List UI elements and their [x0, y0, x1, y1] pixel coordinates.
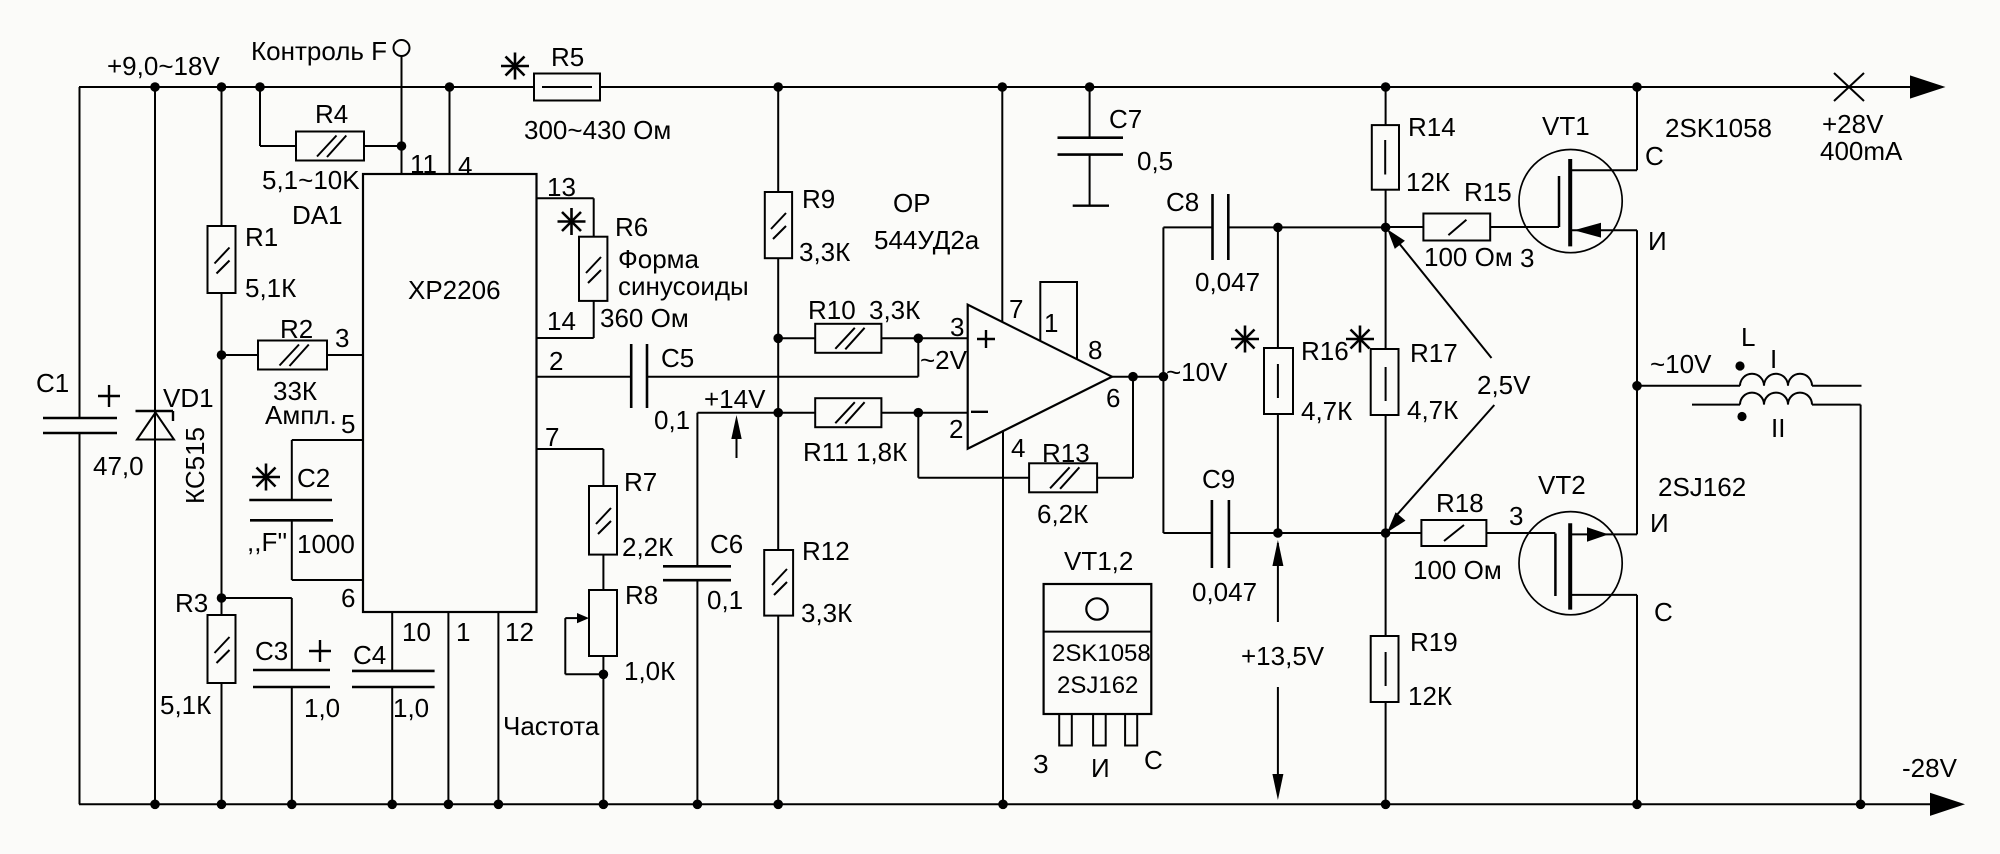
svg-text:C1: C1	[36, 368, 69, 398]
resistor R5 300~430 Ом	[524, 42, 671, 145]
svg-text:12К: 12К	[1406, 167, 1450, 197]
svg-text:С: С	[1654, 597, 1673, 627]
resistor R6 360 Ом with pins 13,14	[537, 172, 749, 338]
svg-text:И: И	[1648, 226, 1667, 256]
svg-text:2SK1058: 2SK1058	[1052, 640, 1151, 667]
node 2,5V label with pointer arrows	[1387, 229, 1531, 532]
wire R1 branch	[221, 87, 223, 804]
svg-text:Форма: Форма	[618, 244, 700, 274]
svg-text:I: I	[1770, 344, 1777, 374]
wire pin 4 branch	[449, 87, 451, 174]
inductor L transformer primary I	[1637, 322, 1862, 386]
wire bottom -28V bus	[79, 803, 1934, 805]
svg-text:100 Ом: 100 Ом	[1413, 555, 1502, 585]
wire VD1 branch	[154, 87, 156, 804]
resistor R12 3,3K	[764, 536, 852, 628]
node X break mark on top bus	[1834, 73, 1864, 101]
svg-text:3: 3	[950, 312, 964, 342]
svg-text:C3: C3	[255, 636, 288, 666]
svg-text:II: II	[1771, 413, 1785, 443]
resistor R13 6,2K feedback	[918, 413, 1097, 529]
svg-text:7: 7	[545, 422, 559, 452]
capacitor C4 1,0 with pin 10	[352, 612, 435, 804]
component asterisk near C2	[252, 464, 280, 491]
svg-text:VT1,2: VT1,2	[1064, 546, 1133, 576]
svg-text:10: 10	[402, 617, 431, 647]
svg-text:И: И	[1091, 753, 1110, 783]
resistor R2 33K	[222, 314, 364, 430]
svg-text:2,5V: 2,5V	[1477, 370, 1531, 400]
node Контроль F terminal	[251, 36, 410, 174]
node junction dots top bus	[150, 82, 1642, 92]
svg-text:R11 1,8К: R11 1,8К	[803, 437, 907, 467]
svg-text:1: 1	[456, 617, 470, 647]
svg-text:2: 2	[949, 414, 963, 444]
svg-text:R8: R8	[625, 580, 658, 610]
svg-text:R10: R10	[808, 295, 856, 325]
wire output bracket to C8/C9	[1162, 227, 1164, 533]
svg-text:2SK1058: 2SK1058	[1665, 113, 1772, 143]
svg-text:3: 3	[1520, 243, 1534, 273]
node ~10V output node label	[1650, 349, 1712, 379]
svg-text:R1: R1	[245, 222, 278, 252]
svg-text:5,1К: 5,1К	[160, 690, 211, 720]
svg-text:2: 2	[549, 346, 563, 376]
svg-text:R7: R7	[624, 467, 657, 497]
wire R14-R17-R19 branch	[1385, 87, 1387, 804]
svg-text:VT1: VT1	[1542, 111, 1590, 141]
svg-text:12: 12	[505, 617, 534, 647]
svg-text:47,0: 47,0	[93, 451, 144, 481]
svg-text:6: 6	[341, 583, 355, 613]
node bottom-bus output arrow	[1930, 793, 1965, 816]
svg-text:+28V: +28V	[1822, 109, 1884, 139]
svg-text:1000: 1000	[297, 529, 355, 559]
resistor R3 5,1K	[160, 588, 236, 720]
svg-text:1,0: 1,0	[393, 693, 429, 723]
svg-text:~10V: ~10V	[1650, 349, 1712, 379]
svg-text:КС515: КС515	[180, 427, 210, 504]
wire R9-R12 branch	[777, 87, 779, 804]
svg-text:-28V: -28V	[1902, 753, 1958, 783]
resistor R1 5,1K	[208, 222, 297, 303]
svg-text:Ампл.: Ампл.	[265, 400, 337, 430]
component asterisk near R16	[1231, 326, 1259, 353]
svg-text:R17: R17	[1410, 338, 1458, 368]
svg-text:3: 3	[1509, 501, 1523, 531]
resistor R16 4,7K	[1264, 227, 1352, 533]
transistor VT1,2 package drawing 2SK1058/2SJ162	[1033, 546, 1163, 783]
svg-text:XP2206: XP2206	[408, 275, 501, 305]
svg-text:R9: R9	[802, 184, 835, 214]
resistor R15 100 Ом	[1386, 177, 1559, 273]
transistor Q2 VT2 2SJ162	[1519, 386, 1746, 805]
svg-text:C2: C2	[297, 463, 330, 493]
svg-text:3,3К: 3,3К	[801, 598, 852, 628]
diode VD1 zener КС515	[136, 383, 214, 504]
svg-text:1,0: 1,0	[304, 693, 340, 723]
node junction dots bottom bus	[150, 800, 1865, 810]
svg-text:C4: C4	[353, 640, 386, 670]
svg-text:~2V: ~2V	[920, 345, 968, 375]
wire op-amp pin 7 branch	[1002, 87, 1023, 324]
op-amp OP 544УД2а label	[874, 188, 980, 255]
svg-text:R13: R13	[1042, 438, 1090, 468]
svg-text:1,0К: 1,0К	[624, 656, 675, 686]
svg-text:300~430 Ом: 300~430 Ом	[524, 115, 671, 145]
svg-text:+9,0~18V: +9,0~18V	[107, 51, 220, 81]
svg-text:R19: R19	[1410, 627, 1458, 657]
wire left vertical branch with C1	[79, 87, 81, 804]
svg-text:4: 4	[1011, 433, 1025, 463]
svg-text:2SJ162: 2SJ162	[1658, 472, 1746, 502]
svg-text:ОР: ОР	[893, 188, 931, 218]
svg-text:C7: C7	[1109, 104, 1142, 134]
svg-text:VT2: VT2	[1538, 470, 1586, 500]
component asterisk near R17	[1346, 326, 1374, 353]
svg-text:0,5: 0,5	[1137, 146, 1173, 176]
capacitor C2 1000 with pins 5,6	[247, 409, 363, 613]
svg-text:544УД2а: 544УД2а	[874, 225, 980, 255]
svg-text:C8: C8	[1166, 187, 1199, 217]
resistor R11 1,8K	[803, 398, 968, 467]
node -28V label	[1902, 753, 1958, 783]
wire pin 1 branch	[448, 612, 470, 804]
svg-text:5,1~10K: 5,1~10K	[262, 165, 360, 195]
svg-text:8: 8	[1088, 335, 1102, 365]
svg-text:6: 6	[1106, 383, 1120, 413]
svg-text:С: С	[1144, 745, 1163, 775]
svg-text:R12: R12	[802, 536, 850, 566]
node op-amp pins 1-8 bracket	[1040, 282, 1102, 365]
svg-text:R15: R15	[1464, 177, 1512, 207]
node Частота label	[503, 711, 600, 741]
svg-text:З: З	[1033, 749, 1049, 779]
node top-bus output arrow	[1910, 75, 1946, 98]
node +9,0~18V label	[107, 51, 220, 81]
capacitor C7 0,5	[1058, 87, 1174, 206]
node ~10V output label	[1166, 357, 1228, 387]
resistor R18 100 Ом	[1386, 488, 1556, 585]
svg-text:5: 5	[341, 409, 355, 439]
resistor R19 12K	[1371, 627, 1458, 711]
potentiometer R8 1,0K	[565, 555, 675, 805]
svg-text:R16: R16	[1301, 336, 1349, 366]
svg-text:R4: R4	[315, 99, 348, 129]
op-amp DA1 label	[292, 200, 343, 230]
svg-text:12К: 12К	[1408, 681, 1452, 711]
svg-text:R3: R3	[175, 588, 208, 618]
svg-text:L: L	[1741, 322, 1755, 352]
resistor R9 3,3K	[765, 184, 850, 267]
svg-text:+14V: +14V	[704, 384, 766, 414]
svg-text:Частота: Частота	[503, 711, 600, 741]
svg-text:14: 14	[547, 306, 576, 336]
svg-text:4,7К: 4,7К	[1407, 395, 1458, 425]
svg-text:5,1К: 5,1К	[245, 273, 296, 303]
svg-text:синусоиды: синусоиды	[618, 271, 749, 301]
svg-text:3,3К: 3,3К	[869, 295, 920, 325]
svg-text:400mA: 400mA	[1820, 136, 1903, 166]
transistor Q1 VT1 2SK1058	[1519, 87, 1772, 386]
svg-text:C6: C6	[710, 529, 743, 559]
resistor R17 4,7K	[1371, 338, 1459, 425]
capacitor C6 0,1	[663, 413, 743, 805]
svg-text:DA1: DA1	[292, 200, 343, 230]
svg-text:13: 13	[547, 172, 576, 202]
component asterisk near R6	[558, 208, 586, 235]
node junction dots middle	[217, 141, 1642, 679]
op-amp U2 544УД2а triangle	[949, 305, 1112, 449]
capacitor C9 0,047	[1163, 464, 1385, 607]
inductor transformer secondary II	[1692, 393, 1861, 805]
svg-text:3,3К: 3,3К	[799, 237, 850, 267]
wire C5 to noninverting input	[917, 338, 919, 376]
wire op-amp output pin 6	[1097, 377, 1163, 478]
svg-text:R5: R5	[551, 42, 584, 72]
node +14V rail with arrow	[697, 384, 815, 458]
node +13,5V measurement arrow	[1241, 540, 1325, 800]
svg-text:4,7К: 4,7К	[1301, 396, 1352, 426]
svg-text:С: С	[1645, 141, 1664, 171]
svg-text:0,1: 0,1	[654, 405, 690, 435]
resistor R10 3,3K	[778, 295, 968, 353]
svg-text:6,2К: 6,2К	[1037, 499, 1088, 529]
svg-text:C5: C5	[661, 343, 694, 373]
svg-text:И: И	[1650, 508, 1669, 538]
resistor R7 2,2K with pin 7	[537, 422, 674, 562]
svg-text:7: 7	[1009, 294, 1023, 324]
component asterisk near R5	[501, 53, 529, 80]
svg-text:3: 3	[335, 323, 349, 353]
svg-text:VD1: VD1	[163, 383, 214, 413]
svg-text:360 Ом: 360 Ом	[600, 303, 689, 333]
svg-text:R2: R2	[280, 314, 313, 344]
svg-text:+13,5V: +13,5V	[1241, 641, 1325, 671]
capacitor C8 0,047	[1163, 187, 1385, 297]
svg-text:1: 1	[1044, 308, 1058, 338]
svg-text:R6: R6	[615, 212, 648, 242]
svg-text:100 Ом: 100 Ом	[1424, 242, 1513, 272]
resistor R14 12K	[1372, 112, 1456, 197]
svg-text:C9: C9	[1202, 464, 1235, 494]
svg-text:R18: R18	[1436, 488, 1484, 518]
wire top +supply bus	[79, 86, 1914, 88]
svg-text:2SJ162: 2SJ162	[1057, 672, 1138, 699]
svg-text:0,047: 0,047	[1192, 577, 1257, 607]
capacitor C1	[36, 368, 144, 481]
svg-text:R14: R14	[1408, 112, 1456, 142]
wire op-amp pin 4 branch	[1003, 430, 1025, 804]
svg-text:~10V: ~10V	[1166, 357, 1228, 387]
node ~2V label	[920, 345, 968, 375]
capacitor C3 1,0	[222, 598, 341, 804]
svg-text:0,1: 0,1	[707, 585, 743, 615]
capacitor C5 0,1 with pin 2	[537, 343, 919, 435]
svg-text:,,F'': ,,F''	[247, 527, 287, 557]
node +28V label	[1820, 109, 1903, 166]
svg-text:0,047: 0,047	[1195, 267, 1260, 297]
svg-text:4: 4	[458, 151, 472, 181]
wire pin 12 branch	[498, 612, 534, 804]
svg-text:11: 11	[410, 149, 437, 179]
resistor R4 5,1~10K	[260, 87, 402, 195]
svg-text:2,2К: 2,2К	[622, 532, 673, 562]
op-amp U1 XP2206 IC body	[363, 149, 537, 612]
svg-text:Контроль F: Контроль F	[251, 36, 387, 66]
